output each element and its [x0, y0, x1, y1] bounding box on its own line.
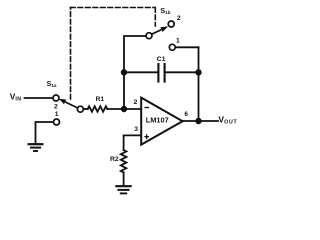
svg-text:6: 6 — [184, 111, 188, 118]
switch S1a pole contact — [77, 106, 83, 112]
svg-text:1: 1 — [176, 37, 180, 44]
wire node to op-amp pin 2 — [124, 108, 141, 110]
svg-text:2: 2 — [177, 15, 181, 22]
wire S1b terminal1 to right column — [175, 46, 198, 48]
wire op-amp output pin 6 to VOUT — [183, 120, 219, 122]
switch S1b terminal 1 contact — [169, 44, 175, 50]
wire C1 left lead — [124, 71, 158, 73]
node junction C1 right — [195, 69, 201, 75]
node junction C1 left — [121, 69, 127, 75]
wire S1a terminal1 to ground — [36, 122, 54, 143]
wire R1 left lead from S1a pole — [83, 108, 88, 110]
switch S1b arm with arrow — [152, 26, 169, 34]
node junction output — [195, 118, 201, 124]
svg-text:2: 2 — [134, 99, 138, 106]
wire op-amp pin 3 to R2 — [124, 135, 141, 150]
wire dashed gang-link right vertical — [154, 8, 156, 27]
svg-text:2: 2 — [54, 103, 58, 110]
resistor R1 zigzag — [88, 106, 108, 112]
ground symbol under S1a terminal 1 — [28, 144, 44, 151]
wire dashed gang-link left vertical — [70, 8, 72, 100]
op-amp inverting input minus sign — [145, 107, 150, 109]
switch S1b terminal 2 contact — [168, 21, 174, 27]
op-amp non-inverting input plus sign — [144, 134, 149, 139]
wire VIN input — [25, 97, 53, 99]
svg-text:R2: R2 — [110, 156, 119, 163]
switch S1b pole contact — [146, 33, 152, 39]
svg-text:3: 3 — [134, 126, 138, 133]
svg-text:1: 1 — [55, 111, 59, 118]
switch S1a terminal 1 contact — [54, 119, 60, 125]
wire C1 left node to S1b pole — [124, 36, 146, 72]
svg-text:R1: R1 — [96, 96, 105, 103]
wire dashed gang-link top horizontal — [71, 7, 156, 9]
ground symbol under R2 — [115, 186, 131, 193]
capacitor C1 plates — [158, 64, 164, 82]
wire right column vertical — [198, 47, 200, 121]
switch S1a terminal 2 contact — [53, 95, 59, 101]
resistor R2 zigzag — [121, 150, 127, 172]
wire R1 right lead to node at pin2 — [107, 108, 124, 110]
svg-text:LM107: LM107 — [146, 116, 169, 125]
wire R2 bottom lead to ground — [123, 172, 125, 185]
svg-text:C1: C1 — [157, 56, 166, 63]
wire C1 right lead — [165, 71, 198, 73]
op-amp U1 LM107 triangle — [141, 98, 182, 145]
switch S1a arm with arrow — [59, 99, 78, 108]
wire vertical node column pin2 to C1 left node — [123, 72, 125, 109]
node junction pin2 — [121, 106, 127, 112]
